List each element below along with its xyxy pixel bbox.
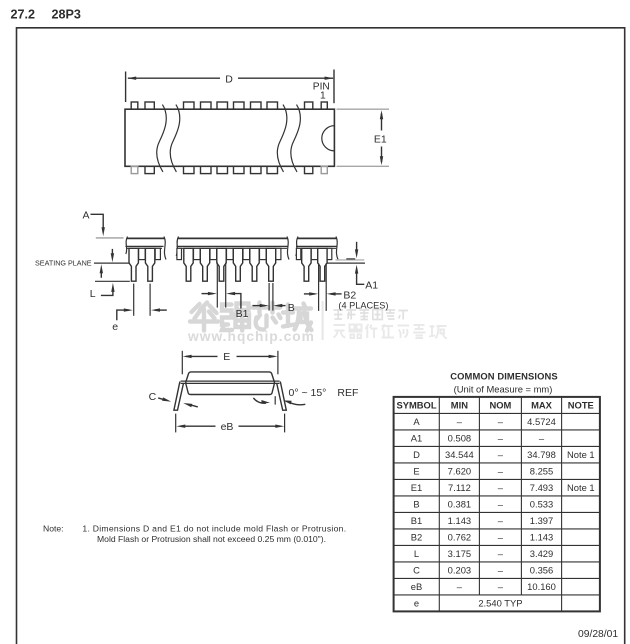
top row pin leads (top view) <box>131 102 327 109</box>
dimension B2 extension lines <box>318 263 320 311</box>
dimension A1 down arrow <box>356 242 358 253</box>
dimension B1 extension lines <box>216 263 218 308</box>
svg-text:–: – <box>539 433 545 444</box>
svg-text:C: C <box>413 565 420 576</box>
table outer border <box>394 397 600 612</box>
far-row pin stubs (side view) <box>139 248 332 259</box>
svg-text:4.5724: 4.5724 <box>527 416 556 427</box>
lead angle vertex reference tick <box>274 396 276 404</box>
table column lines <box>439 397 561 612</box>
watermark char 3 (xin) <box>253 303 281 330</box>
svg-text:MIN: MIN <box>451 400 468 411</box>
svg-text:28P3: 28P3 <box>52 8 81 22</box>
svg-text:1. Dimensions D and E1 do not: 1. Dimensions D and E1 do not include mo… <box>82 524 346 534</box>
table row lines <box>394 413 600 595</box>
svg-text:e: e <box>112 321 118 333</box>
dimension D line with arrows <box>127 77 333 80</box>
svg-text:–: – <box>498 515 504 526</box>
svg-text:–: – <box>498 482 504 493</box>
svg-text:eB: eB <box>221 421 234 433</box>
svg-text:–: – <box>498 532 504 543</box>
svg-text:–: – <box>498 433 504 444</box>
label PIN 1 <box>313 82 330 102</box>
right lead (end view) <box>277 382 287 411</box>
svg-text:10.160: 10.160 <box>527 581 556 592</box>
watermark separator bar <box>322 301 324 340</box>
svg-text:27.2: 27.2 <box>11 8 36 22</box>
svg-text:3.429: 3.429 <box>530 548 553 559</box>
svg-text:2.540 TYP: 2.540 TYP <box>478 598 522 609</box>
svg-text:34.798: 34.798 <box>527 449 556 460</box>
svg-text:E: E <box>413 466 419 477</box>
table data rows <box>411 416 595 608</box>
svg-text:–: – <box>498 565 504 576</box>
svg-text:E1: E1 <box>374 133 387 145</box>
left lead (end view) <box>174 382 184 411</box>
dimension E extension ticks <box>181 351 183 375</box>
svg-text:7.620: 7.620 <box>448 466 471 477</box>
dimension E1 arrows <box>380 110 383 165</box>
svg-text:NOTE: NOTE <box>568 400 594 411</box>
svg-text:7.493: 7.493 <box>530 482 553 493</box>
svg-text:–: – <box>457 581 463 592</box>
dimension B arrows and label <box>253 305 266 307</box>
dimension e arrows <box>117 310 129 320</box>
svg-text:Note 1: Note 1 <box>567 449 595 460</box>
svg-text:B1: B1 <box>236 308 249 320</box>
svg-text:1: 1 <box>320 91 326 102</box>
svg-text:A1: A1 <box>365 280 378 292</box>
svg-text:D: D <box>413 449 420 460</box>
svg-text:A1: A1 <box>411 433 422 444</box>
package top reference line (gray) <box>96 237 124 239</box>
pin-1 index notch arc <box>322 126 335 151</box>
svg-text:eB: eB <box>411 581 422 592</box>
package body side view: left segment <box>126 237 167 260</box>
break lines (top view) <box>157 105 301 172</box>
svg-text:0.533: 0.533 <box>530 499 553 510</box>
package body side view: middle segment <box>176 237 289 260</box>
seating plane down arrow <box>111 249 113 257</box>
svg-text:E: E <box>223 351 230 363</box>
seating plane line <box>94 262 130 264</box>
svg-text:B1: B1 <box>411 515 422 526</box>
svg-text:B: B <box>413 499 419 510</box>
svg-text:D: D <box>225 74 233 86</box>
svg-text:SEATING PLANE: SEATING PLANE <box>35 258 92 267</box>
package bottom short tick <box>346 258 355 260</box>
svg-text:REF: REF <box>337 387 358 399</box>
dimension B2 arrows and label <box>304 293 315 295</box>
lead tip reference line <box>95 280 130 282</box>
svg-text:0.203: 0.203 <box>448 565 471 576</box>
svg-text:1.143: 1.143 <box>448 515 471 526</box>
svg-text:A: A <box>83 209 90 221</box>
package body (top view) <box>125 109 334 166</box>
svg-text:1.397: 1.397 <box>530 515 553 526</box>
svg-text:Mold Flash or Protrusion shall: Mold Flash or Protrusion shall not excee… <box>97 534 326 544</box>
svg-text:(Unit of Measure = mm): (Unit of Measure = mm) <box>454 383 553 394</box>
svg-text:1.143: 1.143 <box>530 532 553 543</box>
svg-text:B: B <box>288 302 295 314</box>
lead angle arc with arrow (left of vertex) <box>253 398 265 403</box>
watermark char 4 (cheng) <box>283 304 312 331</box>
watermark char 2 (qiang) <box>222 304 249 331</box>
lead frame edge lines <box>181 380 280 382</box>
svg-text:–: – <box>498 466 504 477</box>
svg-text:e: e <box>414 598 419 609</box>
dimension A1 up arrow with elbow <box>357 270 365 284</box>
svg-text:L: L <box>414 548 419 559</box>
dimension e extension lines <box>133 284 135 316</box>
package body (end view) <box>186 372 275 395</box>
svg-text:(4 PLACES): (4 PLACES) <box>338 301 388 311</box>
svg-text:0.762: 0.762 <box>448 532 471 543</box>
seating plane up arrow <box>100 270 102 278</box>
near-row pins (side view) <box>129 248 327 281</box>
dimension eB extension ticks <box>175 414 177 433</box>
svg-text:–: – <box>498 548 504 559</box>
svg-text:www.hqchip.com: www.hqchip.com <box>187 329 315 344</box>
svg-text:C: C <box>149 391 157 403</box>
svg-text:SYMBOL: SYMBOL <box>396 400 436 411</box>
package body side view: right segment <box>296 237 338 260</box>
dimension D / pin1 extension line right <box>333 70 335 104</box>
dimension E1 extension lines (gray) <box>337 109 390 166</box>
svg-text:E1: E1 <box>411 482 422 493</box>
svg-text:0.508: 0.508 <box>448 433 471 444</box>
svg-text:3.175: 3.175 <box>448 548 471 559</box>
svg-text:0° ~ 15°: 0° ~ 15° <box>289 387 327 399</box>
svg-text:–: – <box>457 416 463 427</box>
svg-text:0.381: 0.381 <box>448 499 471 510</box>
dimension E line with arrows <box>186 355 217 357</box>
svg-text:–: – <box>498 581 504 592</box>
svg-text:L: L <box>90 288 96 300</box>
svg-text:–: – <box>498 449 504 460</box>
lead angle arc with arrow (right of vertex) <box>287 401 305 405</box>
svg-text:0.356: 0.356 <box>530 565 553 576</box>
svg-text:COMMON DIMENSIONS: COMMON DIMENSIONS <box>450 371 557 382</box>
watermark small row 2 (yuan qi jian zai xian shang cheng) <box>334 324 448 339</box>
svg-text:NOM: NOM <box>489 400 511 411</box>
svg-text:–: – <box>498 499 504 510</box>
section title 27.2 28P3 <box>11 8 81 22</box>
svg-text:Note 1: Note 1 <box>567 482 595 493</box>
svg-text:–: – <box>498 416 504 427</box>
dimension B1 arrows and label <box>202 293 214 295</box>
svg-text:A: A <box>413 416 420 427</box>
dimension B extension lines <box>268 283 270 311</box>
seating plane extension right <box>327 262 366 264</box>
dimension eB line with arrows <box>180 425 216 427</box>
svg-text:7.112: 7.112 <box>448 482 471 493</box>
svg-text:09/28/01: 09/28/01 <box>578 629 618 640</box>
dimension D extension line left <box>125 72 127 103</box>
watermark small row 1 (hua qiang ji tuan qi xia) <box>334 309 409 320</box>
svg-text:B2: B2 <box>411 532 422 543</box>
svg-text:MAX: MAX <box>531 400 553 411</box>
table header row <box>396 400 593 411</box>
svg-text:34.544: 34.544 <box>445 449 474 460</box>
svg-text:8.255: 8.255 <box>530 466 553 477</box>
watermark char 1 (hua) <box>190 303 218 331</box>
package bottom reference line (gray) <box>336 259 365 261</box>
bottom row pin leads (top view) <box>131 166 327 173</box>
svg-text:Note:: Note: <box>43 524 64 534</box>
